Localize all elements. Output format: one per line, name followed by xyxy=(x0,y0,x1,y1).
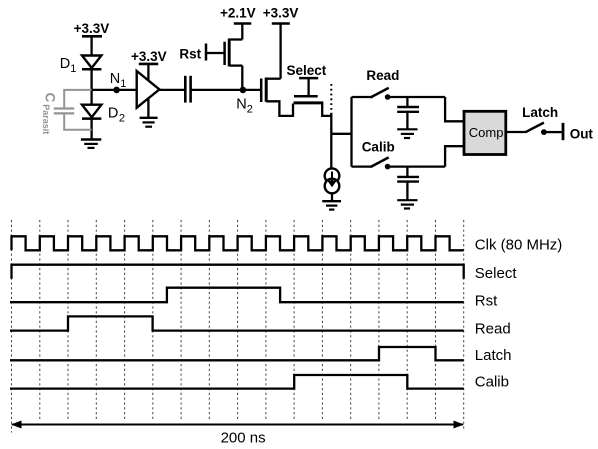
svg-text:Comp: Comp xyxy=(469,125,504,140)
svg-text:+3.3V: +3.3V xyxy=(74,21,110,36)
svg-text:C: C xyxy=(42,93,57,103)
svg-text:Clk (80 MHz): Clk (80 MHz) xyxy=(475,236,563,253)
svg-text:Latch: Latch xyxy=(475,347,512,364)
svg-text:Select: Select xyxy=(475,265,518,282)
svg-text:Read: Read xyxy=(366,68,399,83)
svg-text:1: 1 xyxy=(70,63,76,75)
svg-text:N: N xyxy=(236,96,246,112)
svg-text:N: N xyxy=(110,71,120,87)
svg-text:Calib: Calib xyxy=(475,374,509,391)
svg-text:+3.3V: +3.3V xyxy=(263,5,299,20)
svg-text:Calib: Calib xyxy=(362,139,395,154)
svg-text:Read: Read xyxy=(475,321,511,338)
svg-text:1: 1 xyxy=(120,78,126,90)
svg-text:Rst: Rst xyxy=(179,46,201,61)
svg-text:2: 2 xyxy=(119,113,125,125)
svg-text:Latch: Latch xyxy=(522,105,558,120)
svg-text:+3.3V: +3.3V xyxy=(131,49,167,64)
svg-text:Out: Out xyxy=(570,127,594,142)
svg-text:Select: Select xyxy=(287,63,327,78)
svg-text:200 ns: 200 ns xyxy=(221,430,266,447)
svg-text:Rst: Rst xyxy=(475,293,498,310)
svg-text:D: D xyxy=(60,56,70,72)
svg-text:D: D xyxy=(108,105,118,121)
svg-text:+2.1V: +2.1V xyxy=(220,5,256,20)
svg-text:Parasit: Parasit xyxy=(41,104,51,134)
svg-text:2: 2 xyxy=(247,104,253,116)
